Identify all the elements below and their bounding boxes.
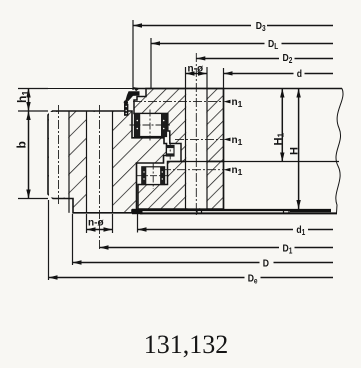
svg-text:b: b <box>15 141 29 148</box>
svg-text:H: H <box>289 147 301 155</box>
svg-text:n-ø: n-ø <box>88 218 104 229</box>
svg-text:D: D <box>263 258 269 270</box>
svg-text:n1: n1 <box>232 165 243 177</box>
svg-text:n-ø: n-ø <box>188 64 204 75</box>
svg-text:n1: n1 <box>232 97 243 109</box>
svg-text:d: d <box>297 68 302 80</box>
svg-text:131,132: 131,132 <box>144 330 229 359</box>
svg-text:n1: n1 <box>232 135 243 147</box>
